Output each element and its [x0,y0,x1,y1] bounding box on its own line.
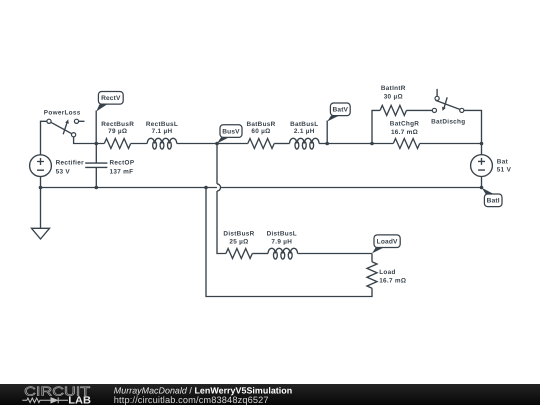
svg-text:7.9 µH: 7.9 µH [271,238,292,245]
svg-text:Bat: Bat [497,159,509,166]
node RectV junction [95,142,99,146]
wire: Bat positive lead [481,144,483,155]
wire: ground lead from bottom bus [40,188,42,229]
voltage source Rectifier 53 V [30,155,84,177]
PowerLoss left terminal [47,119,51,123]
voltage source Bat 51 V [471,155,512,177]
wire crossover hop over bottom bus [217,184,221,191]
resistor RectBusR [101,121,134,149]
wire: BatChgR to Bat [420,143,482,145]
ground [32,228,50,239]
wire: LoadV corner down to Load [371,254,373,262]
wire: RectV flag stem [95,111,97,144]
svg-text:137 mF: 137 mF [110,169,134,176]
BatDischg top throw stub [436,89,438,96]
junction: Bat negative / BatI node [480,186,484,190]
svg-text:BatIntR: BatIntR [381,85,406,92]
svg-text:51 V: 51 V [497,167,512,174]
BatDischg actuator arrow [442,97,447,111]
svg-text:BatV: BatV [332,107,348,114]
resistor BatIntR [380,85,406,115]
wire: BatBusR to BatBusL [274,143,289,145]
resistor Load (vertical) [367,262,406,288]
wire: RectBusL to BatBusR across node BusV [177,143,248,145]
CircuitLab logo resistor-diode doodle [22,397,68,403]
wire: BusV branch down to crossover hop [216,144,218,184]
svg-text:BatI: BatI [487,198,500,205]
junction: RectOP on bottom bus [95,186,99,190]
svg-text:2.1 µH: 2.1 µH [294,128,315,135]
svg-text:79 µΩ: 79 µΩ [108,128,127,135]
wire: bottom bus (ground rail) [41,187,482,189]
node BatV junction [325,142,329,146]
BatDischg left terminal [432,108,436,112]
wire: DistBusR to DistBusL [252,253,268,255]
junction: Rectifier negative on bottom bus [39,186,43,190]
svg-text:Rectifier: Rectifier [56,160,84,167]
wire: BatIntR to BatDischg left terminal [407,109,433,111]
node label flag RectV [96,92,123,112]
wire: Rectifier negative lead to bottom bus [40,177,42,188]
resistor DistBusR [223,231,254,259]
svg-text:16.7 mΩ: 16.7 mΩ [379,278,406,285]
PowerLoss actuator arrow [63,119,69,134]
wire: RectBusR to RectBusL [131,143,148,145]
inductor BatBusL [290,121,320,149]
node BusV junction [215,142,219,146]
svg-text:PowerLoss: PowerLoss [44,110,81,117]
svg-text:LoadV: LoadV [377,239,398,246]
svg-text:RectV: RectV [101,95,121,102]
wire: BatDischg common over and down to bus [464,110,482,143]
svg-text:http://circuitlab.com/cm83848z: http://circuitlab.com/cm83848zq6527 [114,395,269,405]
PowerLoss blade (closed to lower contact) [51,122,72,133]
wire: branch up from split to BatIntR [372,110,380,143]
svg-text:7.1 µH: 7.1 µH [152,128,173,135]
svg-text:MurrayMacDonald / LenWerryV5Si: MurrayMacDonald / LenWerryV5Simulation [114,385,292,395]
PowerLoss upper-right throw terminal and stub [74,119,78,123]
BatDischg right (common) terminal [460,108,464,112]
junction: load return on bottom bus [204,186,208,190]
junction: BatChgR / BatIntR branch split [370,142,374,146]
wire: Bat negative lead to bottom bus [481,177,483,188]
resistor BatChgR [390,121,420,149]
wire: DistBusL to node LoadV [298,253,372,255]
svg-text:RectOP: RectOP [110,160,135,167]
RectOP bottom lead [95,167,97,187]
inductor RectBusL [146,121,178,149]
svg-text:16.7 mΩ: 16.7 mΩ [391,129,418,136]
node label flag BusV [217,125,242,144]
RectOP plates [85,163,107,167]
svg-text:LAB: LAB [68,396,91,405]
node label flag BatV [327,103,350,122]
switch BatDischg (SPDT, open) [431,89,465,125]
wire: hop down to distribution branch and to DistBusR [217,191,226,254]
switch PowerLoss (SPDT) [44,110,85,137]
capacitor RectOP [85,144,135,188]
svg-text:DistBusR: DistBusR [223,231,254,238]
node label flag BatI [482,188,502,207]
svg-text:53 V: 53 V [56,169,71,176]
svg-text:25 µΩ: 25 µΩ [229,238,248,245]
inductor DistBusL [267,231,298,259]
BatDischg top throw terminal [435,96,439,100]
footer bar [0,384,540,405]
svg-text:BatDischg: BatDischg [431,118,465,125]
RectOP top lead [95,144,97,164]
svg-text:BatChgR: BatChgR [390,121,420,128]
resistor BatBusR [246,121,275,149]
node label flag LoadV [372,235,400,254]
svg-text:DistBusL: DistBusL [267,231,297,238]
svg-text:60 µΩ: 60 µΩ [251,128,270,135]
svg-text:30 µΩ: 30 µΩ [384,93,403,100]
wire: Load bottom return to bottom bus [206,188,372,297]
junction: Bat positive node [480,142,484,146]
wire: BatBusL across node BatV to BatChgR [319,143,393,145]
wire: Rectifier positive lead up and over to PowerLoss left throw [41,121,47,156]
PowerLoss common (bottom) terminal [72,133,76,137]
svg-text:Load: Load [379,269,395,276]
BatDischg blade (up to top throw) [435,100,459,109]
wire: BatV flag stem [326,121,328,144]
svg-text:BusV: BusV [222,129,240,136]
wire: PowerLoss common down to top bus toward node RectV [74,137,105,144]
